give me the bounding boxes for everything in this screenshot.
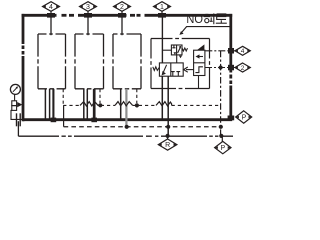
- svg-text:R: R: [165, 142, 170, 149]
- port diamond 4: [43, 2, 60, 14]
- wire feed station1: [50, 17, 52, 35]
- wire dashed EA line corner: [63, 105, 65, 126]
- svg-text:2: 2: [241, 65, 245, 72]
- port diamond P bottom: [215, 136, 231, 154]
- pilot selector valve U3: [194, 44, 205, 88]
- pilot signal arrow to U2: [184, 67, 194, 72]
- wire feed station2: [87, 17, 89, 35]
- wire chain vertical right pilot: [220, 51, 222, 136]
- port diamond 3: [80, 2, 97, 14]
- port diamond 2: [114, 2, 131, 14]
- node junction block port3: [84, 13, 92, 18]
- wire pilot line horizontal dashed: [63, 104, 220, 106]
- node junction block right B: [228, 65, 234, 71]
- node dot EA right: [219, 125, 223, 129]
- node junction block right P: [228, 116, 235, 121]
- wire pilot dashed branch station3: [136, 89, 138, 103]
- node dot R: [166, 134, 170, 138]
- node junction block port4: [47, 13, 55, 18]
- check spring symbol 3: [156, 102, 172, 106]
- wire dashed EA line: [64, 126, 221, 128]
- svg-text:4: 4: [241, 48, 245, 55]
- wire bottom R line corner: [17, 121, 19, 136]
- wire feed station4 NO: [161, 17, 163, 63]
- node junction block port1: [158, 13, 166, 18]
- supply break ticks: [16, 113, 18, 126]
- node junction block port2: [118, 13, 126, 18]
- valve station box NO detail: [151, 39, 210, 89]
- port diamond 1: [154, 2, 171, 14]
- pressure gauge G1: [10, 84, 20, 100]
- wire station3 outputs: [120, 89, 122, 119]
- svg-text:1: 1: [160, 4, 164, 11]
- node dot pilot station2: [98, 103, 102, 107]
- port diamond P right: [236, 111, 252, 123]
- wire P-bus top horizontal: [22, 14, 233, 17]
- node dot EA station4: [166, 125, 170, 129]
- svg-text:NO: NO: [186, 12, 203, 26]
- glyph 로: [216, 14, 227, 23]
- wire line B to port 2(B): [205, 67, 235, 69]
- wire feed station3: [121, 17, 123, 35]
- svg-text:P: P: [220, 145, 225, 152]
- node junction block bus mid: [91, 118, 97, 123]
- label underline and arrow: [181, 27, 231, 34]
- wire line A to port 4(A): [205, 50, 234, 52]
- node dot EA station3: [125, 125, 129, 129]
- valve station box 2: [75, 34, 104, 89]
- wire P-bus left vertical: [22, 14, 25, 121]
- node dot P bottom: [219, 134, 223, 138]
- wire station1 outputs: [44, 89, 46, 119]
- pilot valve U1: [162, 45, 187, 63]
- wire station2 outputs: [83, 89, 85, 119]
- label NO회로: [179, 12, 230, 35]
- wire bottom R chain line: [18, 135, 233, 137]
- check spring symbol 2: [115, 102, 133, 106]
- port diamond 2(B) right: [235, 63, 250, 72]
- glyph 회: [204, 13, 214, 24]
- check spring symbol 1: [80, 102, 101, 106]
- wire pilot dashed branch station2: [99, 89, 101, 103]
- wire station4 outputs: [161, 76, 163, 118]
- svg-text:2: 2: [120, 4, 124, 11]
- valve station box 1: [38, 34, 66, 89]
- node junction block right A: [228, 48, 234, 54]
- svg-text:3: 3: [86, 4, 90, 11]
- node junction block bus left: [51, 118, 57, 123]
- valve station box 3: [113, 34, 141, 89]
- svg-text:P: P: [242, 115, 247, 122]
- regulator valve V1: [11, 101, 23, 120]
- wire pilot dashed branch station1: [62, 89, 64, 105]
- port diamond R bottom: [158, 136, 177, 150]
- main valve U2: [153, 63, 183, 76]
- node dot line B: [219, 66, 223, 70]
- wire P-bus bottom horizontal: [23, 118, 232, 121]
- port diamond 4(A) right: [235, 46, 250, 55]
- wire P-bus right vertical: [229, 14, 232, 120]
- node dot pilot station3: [135, 103, 139, 107]
- svg-text:4: 4: [49, 4, 53, 11]
